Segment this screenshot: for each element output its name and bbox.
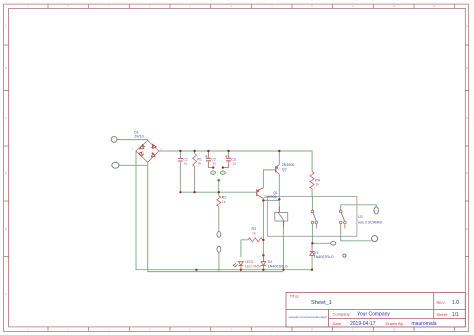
svg-text:U2: U2 bbox=[358, 215, 363, 219]
svg-text:Q2: Q2 bbox=[282, 167, 287, 171]
svg-text:Sheet:: Sheet: bbox=[437, 312, 449, 317]
svg-text:A: A bbox=[466, 25, 468, 28]
svg-text:1N4007RLG: 1N4007RLG bbox=[268, 264, 288, 268]
svg-text:Your Company: Your Company bbox=[357, 312, 390, 318]
svg-text:10: 10 bbox=[393, 5, 396, 8]
svg-text:1N4007RLG: 1N4007RLG bbox=[314, 255, 334, 259]
svg-text:REV:: REV: bbox=[437, 300, 446, 305]
svg-text:1u: 1u bbox=[183, 161, 187, 165]
svg-text:mauromala: mauromala bbox=[412, 321, 437, 327]
svg-text:6: 6 bbox=[230, 5, 232, 8]
svg-text:2W10: 2W10 bbox=[134, 134, 143, 138]
svg-text:1k: 1k bbox=[222, 200, 226, 204]
svg-text:E: E bbox=[466, 228, 468, 231]
svg-text:1.0: 1.0 bbox=[452, 300, 459, 306]
svg-text:5: 5 bbox=[189, 5, 191, 8]
svg-text:2: 2 bbox=[67, 5, 69, 8]
svg-text:LED-3MM: LED-3MM bbox=[245, 264, 261, 268]
svg-text:8: 8 bbox=[311, 5, 313, 8]
svg-text:1k: 1k bbox=[197, 161, 201, 165]
svg-text:1k: 1k bbox=[315, 183, 319, 187]
svg-text:11: 11 bbox=[433, 5, 436, 8]
svg-text:TITLE:: TITLE: bbox=[290, 295, 300, 299]
svg-text:3: 3 bbox=[108, 5, 110, 8]
svg-text:Date:: Date: bbox=[333, 321, 343, 326]
svg-text:1/1: 1/1 bbox=[452, 312, 459, 318]
svg-text:F: F bbox=[5, 293, 7, 296]
svg-text:Drawn By:: Drawn By: bbox=[386, 321, 404, 326]
svg-text:1: 1 bbox=[27, 5, 29, 8]
svg-text:A: A bbox=[5, 25, 7, 28]
svg-text:B: B bbox=[466, 67, 468, 70]
svg-text:easyeda.com/mauromala-relay2: easyeda.com/mauromala-relay2 bbox=[289, 315, 328, 319]
svg-text:rele 2 SCAMBI: rele 2 SCAMBI bbox=[358, 220, 382, 224]
svg-text:1u: 1u bbox=[232, 161, 236, 165]
svg-text:1: 1 bbox=[314, 187, 316, 190]
svg-text:7: 7 bbox=[271, 5, 273, 8]
svg-text:C: C bbox=[466, 117, 468, 120]
svg-text:1k: 1k bbox=[252, 231, 256, 235]
svg-text:1u: 1u bbox=[212, 161, 216, 165]
svg-text:Company:: Company: bbox=[333, 312, 351, 317]
svg-text:1: 1 bbox=[132, 148, 134, 151]
svg-text:B: B bbox=[5, 67, 7, 70]
svg-text:D: D bbox=[466, 172, 468, 175]
svg-text:Sheet_1: Sheet_1 bbox=[311, 300, 332, 306]
svg-text:2N3906: 2N3906 bbox=[264, 195, 277, 199]
svg-text:E: E bbox=[5, 228, 7, 231]
svg-text:2019-04-17: 2019-04-17 bbox=[350, 321, 376, 327]
svg-text:F: F bbox=[466, 293, 468, 296]
svg-text:9: 9 bbox=[352, 5, 354, 8]
svg-text:D: D bbox=[5, 172, 7, 175]
svg-text:4: 4 bbox=[149, 5, 151, 8]
svg-text:C: C bbox=[5, 117, 7, 120]
